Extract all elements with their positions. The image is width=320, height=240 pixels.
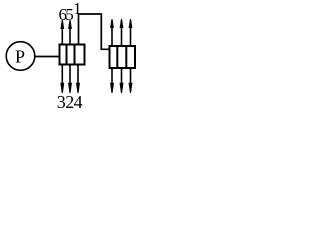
svg-text:P: P — [15, 46, 25, 66]
port 5 arrow up — [68, 20, 72, 44]
port 2 arrow down — [68, 66, 72, 94]
block B arrow down 3 — [129, 69, 133, 94]
pump P — [6, 42, 35, 71]
block B arrow up 1 — [110, 19, 114, 46]
manifold block B — [110, 45, 136, 69]
port 4 arrow down — [76, 66, 80, 94]
port 6 arrow up — [60, 20, 64, 44]
svg-text:1: 1 — [73, 0, 82, 18]
svg-text:4: 4 — [74, 92, 83, 111]
block B arrow down 1 — [110, 69, 114, 94]
manifold block A — [60, 44, 85, 66]
wire pump to block A — [35, 56, 59, 58]
wire net 1 — [79, 14, 110, 49]
block B arrow up 3 — [129, 19, 133, 46]
port 3 arrow down — [60, 66, 64, 94]
block B arrow down 2 — [120, 69, 124, 94]
block B arrow up 2 — [120, 19, 124, 46]
